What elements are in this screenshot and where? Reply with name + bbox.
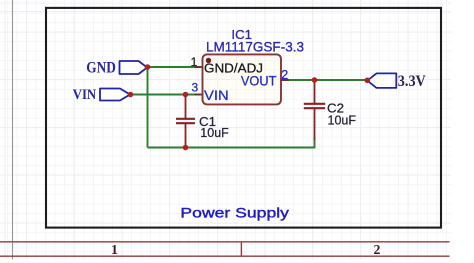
wire GND vertical drop (147, 67, 149, 148)
svg-text:GND: GND (86, 60, 116, 77)
junction C1 top (183, 92, 189, 98)
port 3.3V symbol (367, 73, 396, 88)
svg-text:Power Supply: Power Supply (180, 206, 289, 221)
IC1 pin 1 stub (195, 66, 203, 68)
capacitor C2 plates (304, 103, 325, 105)
svg-text:10uF: 10uF (328, 112, 357, 127)
wire rail up to C2 (314, 139, 316, 148)
capacitor C1 bottom lead (185, 123, 187, 147)
svg-text:1: 1 (191, 55, 198, 69)
svg-text:VIN: VIN (204, 88, 229, 103)
wire GND port to pin 1 (148, 66, 202, 68)
junction at VIN port tip (128, 92, 134, 98)
svg-text:LM1117GSF-3.3: LM1117GSF-3.3 (206, 39, 304, 54)
wire pin 2 to 3.3V port (281, 79, 367, 81)
junction C1 bottom rail (183, 145, 189, 151)
junction at GND port tip (145, 64, 151, 70)
svg-text:2: 2 (374, 242, 381, 257)
wire ground bottom rail (148, 147, 315, 149)
svg-text:3.3V: 3.3V (398, 73, 427, 90)
capacitor C1 top lead (185, 95, 187, 119)
IC1 pin 3 stub (195, 94, 203, 96)
svg-text:3: 3 (192, 80, 199, 94)
junction at 3.3V port tip (365, 78, 371, 84)
junction C2 top (312, 77, 318, 83)
svg-text:10uF: 10uF (200, 125, 229, 140)
ruler band top line (0, 241, 450, 243)
capacitor C2 bottom lead (314, 108, 316, 140)
svg-text:1: 1 (111, 242, 118, 257)
svg-text:2: 2 (281, 68, 288, 82)
IC1 pin-1 marker dot (206, 58, 211, 63)
sheet left border line (12, 0, 14, 260)
ruler band zone divider (240, 242, 242, 256)
port VIN symbol (100, 89, 130, 101)
wire VIN port to pin 3 (131, 94, 201, 96)
svg-text:VOUT: VOUT (241, 74, 277, 89)
IC1 pin 2 stub (281, 79, 289, 81)
sheet frame (black rectangle) (46, 8, 441, 228)
op-amp/regulator IC1 body (203, 54, 282, 104)
ruler band bottom line (0, 255, 450, 257)
svg-text:VIN: VIN (73, 87, 97, 103)
port GND symbol (120, 61, 148, 74)
capacitor C1 plates (176, 118, 195, 120)
capacitor C2 top lead (314, 80, 316, 104)
